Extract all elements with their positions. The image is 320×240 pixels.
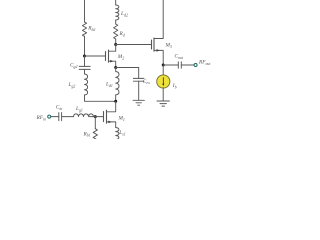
svg-text:Cin: Cin (56, 105, 63, 111)
wire VDD rail to M3 drain (154, 0, 163, 39)
wire R_b2 to gate node of M2 (84, 36, 86, 56)
svg-text:Cg2: Cg2 (70, 63, 77, 69)
wire VDD rail to R_b2 (84, 0, 86, 22)
wire source node of M3 to C_out (163, 64, 178, 66)
svg-text:Ls1: Ls1 (118, 130, 125, 136)
wire C_in to L_g1 (62, 116, 74, 118)
svg-text:Ld1: Ld1 (105, 82, 113, 88)
wire drain node of M2 to gate of M3 (116, 44, 152, 46)
svg-text:Ld2: Ld2 (120, 11, 128, 17)
wire C_out to RF_out (181, 64, 194, 66)
terminal RF_out (194, 64, 197, 67)
ground under C_ex (133, 100, 144, 105)
wire node to C_g2 (84, 56, 86, 66)
transistor M3 (152, 38, 164, 65)
svg-text:Cex: Cex (143, 79, 150, 85)
node gate of M1 (junction dot) (94, 115, 97, 118)
node source of M2 (junction dot) (114, 66, 117, 69)
inductor L_d2 (116, 5, 119, 20)
svg-text:Cout: Cout (175, 54, 184, 60)
svg-text:Rb1: Rb1 (83, 131, 91, 137)
current source I_b (157, 75, 170, 88)
capacitor C_g2 (79, 66, 90, 69)
svg-text:Lg2: Lg2 (68, 82, 76, 88)
inductor L_d1 (116, 68, 119, 95)
inductor L_g1 (74, 114, 94, 117)
wire L_d1 to drain node of M1 (115, 95, 117, 101)
wire RF_in to C_in (51, 116, 59, 118)
wire source node of M3 to current source I_b (162, 65, 164, 75)
wire gate node of M1 to gate (95, 116, 103, 118)
resistor R_d (114, 24, 118, 39)
svg-text:M3: M3 (165, 43, 172, 49)
wire L_d2 to R_d (115, 20, 117, 24)
capacitor C_in (59, 113, 62, 121)
resistor R_b1 (93, 129, 97, 143)
inductor L_g2 (85, 74, 88, 95)
svg-text:M2: M2 (117, 54, 124, 60)
wire source node of M2 to C_ex (116, 68, 139, 79)
ground under I_b (157, 101, 169, 106)
svg-text:RFout: RFout (198, 60, 211, 66)
wire I_b to ground (162, 88, 164, 101)
terminal RF_in (48, 115, 51, 118)
svg-text:M1: M1 (118, 116, 125, 122)
wire C_g2 to L_g2 (84, 69, 86, 74)
capacitor C_out (178, 62, 181, 68)
wire L_g2 to drain node of M1 (85, 95, 116, 101)
capacitor C_ex (133, 78, 144, 81)
inductor L_s1 (116, 128, 119, 144)
wire R_d to drain node of M2 (115, 39, 117, 45)
svg-text:Lg1: Lg1 (75, 106, 83, 112)
svg-text:Ib: Ib (172, 83, 177, 89)
wire gate node to M2 gate (85, 55, 106, 57)
svg-text:RFin: RFin (36, 115, 47, 121)
node source of M3 (junction dot) (162, 64, 165, 67)
wire L_g1 to gate node of M1 (90, 116, 96, 118)
wire gate node of M1 down to R_b1 (94, 117, 96, 129)
wire VDD rail to L_d2 (115, 0, 117, 5)
transistor M2 (106, 45, 116, 68)
svg-text:Rd: Rd (119, 31, 125, 37)
node gate of M2 (junction dot) (83, 55, 86, 58)
wire C_ex to ground (138, 81, 140, 100)
svg-text:Rb2: Rb2 (87, 26, 95, 32)
transistor M1 (104, 101, 116, 127)
node drain of M2 (junction dot) (114, 43, 117, 46)
resistor R_b2 (82, 22, 86, 36)
node drain of M1 (junction dot) (114, 100, 117, 103)
